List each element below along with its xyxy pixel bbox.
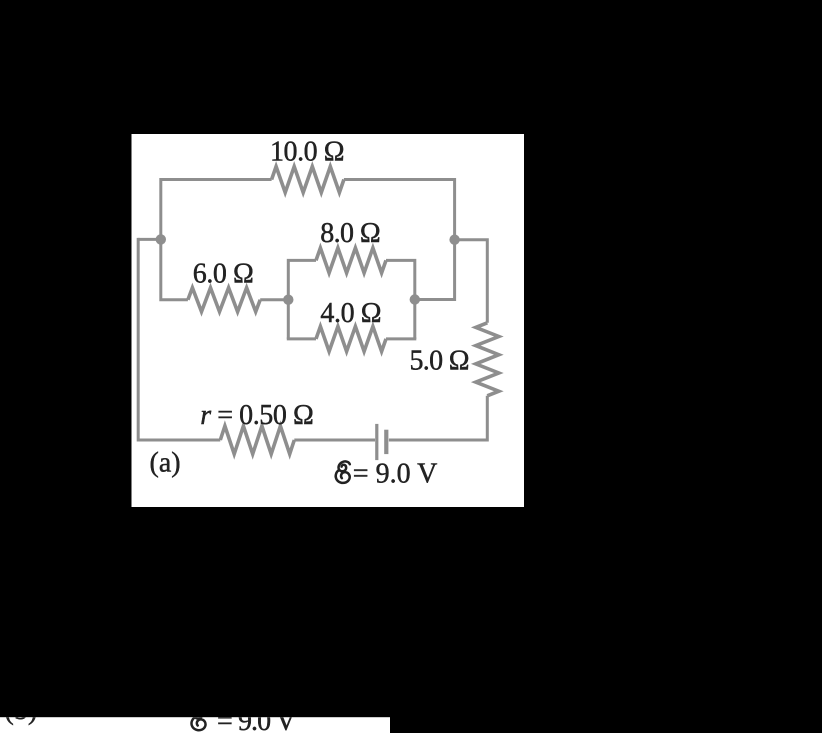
svg-text:8.0 Ω: 8.0 Ω bbox=[320, 218, 381, 249]
wire: node A down to 6.0-ohm branch bbox=[161, 239, 188, 299]
svg-text:6.0 Ω: 6.0 Ω bbox=[193, 259, 254, 290]
wire: 4.0-ohm out to inner box bottom-right bbox=[386, 337, 416, 340]
wire: node D right then up to node B bbox=[415, 240, 455, 300]
svg-text:4.0 Ω: 4.0 Ω bbox=[320, 298, 381, 329]
wire: inner box left vertical bbox=[288, 260, 316, 339]
wire: inner box bottom-left to 4.0 ohm bbox=[287, 337, 316, 340]
wire: 8.0-ohm out, inner box right vertical bbox=[386, 260, 415, 339]
svg-text:5.0 Ω: 5.0 Ω bbox=[410, 346, 470, 377]
battery B1 long plate bbox=[375, 424, 378, 460]
label script-E emf symbol bbox=[336, 461, 350, 482]
resistor R3 8.0 ohm bbox=[316, 248, 386, 273]
wire: 6.0-ohm out to node C bbox=[260, 298, 288, 301]
node B junction dot bbox=[449, 235, 459, 245]
partial label (b) in bottom strip bbox=[5, 695, 38, 726]
battery B1 short plate bbox=[384, 430, 388, 454]
wire: battery to internal resistance r bbox=[294, 439, 375, 442]
resistor R1 10.0 ohm bbox=[272, 167, 344, 193]
svg-text:r = 0.50 Ω: r = 0.50 Ω bbox=[200, 400, 314, 431]
svg-text:(a): (a) bbox=[150, 448, 181, 479]
wire: node A stub to left rail bbox=[138, 238, 161, 241]
wire: left outer rail down and along bottom to r resistor bbox=[138, 238, 220, 440]
resistor R4 4.0 ohm bbox=[316, 326, 386, 351]
wire: 10-ohm out, top-right corner, down to node B bbox=[344, 180, 455, 240]
resistor r internal 0.50 ohm bbox=[220, 426, 294, 454]
resistor R5 5.0 ohm vertical bbox=[476, 323, 499, 396]
wire: 5.0-ohm down, bottom-right corner, left to battery bbox=[389, 396, 487, 440]
bottom partial figure (b) white strip bbox=[0, 717, 390, 733]
node D junction dot bbox=[410, 294, 420, 304]
figure (a) white panel bbox=[132, 134, 525, 507]
svg-text:10.0 Ω: 10.0 Ω bbox=[270, 137, 345, 168]
wire: node B right then down to 5.0 ohm bbox=[455, 240, 488, 323]
node C junction dot bbox=[283, 295, 293, 305]
partial label script-E = 9.0 V in bottom strip bbox=[191, 706, 296, 733]
resistor R2 6.0 ohm bbox=[188, 288, 260, 312]
svg-text:= 9.0 V: = 9.0 V bbox=[353, 459, 438, 490]
node A junction dot bbox=[156, 234, 166, 244]
wire: node A up and across top to 10-ohm resistor bbox=[161, 180, 272, 240]
